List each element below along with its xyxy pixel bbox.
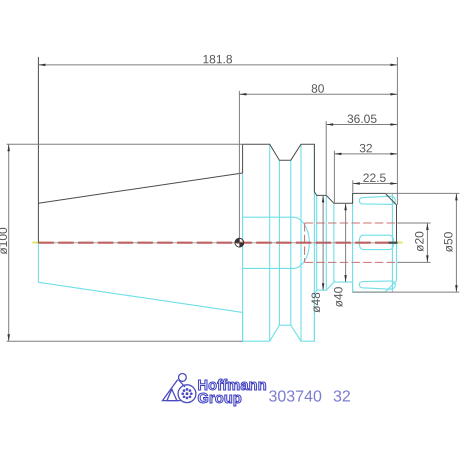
svg-text:ø48: ø48 — [309, 292, 323, 313]
centerline base (gray) — [33, 242, 403, 244]
svg-text:22.5: 22.5 — [363, 171, 387, 185]
dimension 80 — [239, 82, 397, 243]
svg-text:ø20: ø20 — [413, 231, 427, 252]
dimension 32 — [334, 141, 397, 203]
dimension ø100 — [0, 144, 243, 341]
flange left face top — [242, 144, 244, 173]
edge chamfer to ø48 land — [316, 195, 318, 290]
left face / extension — [37, 57, 39, 243]
svg-text:303740: 303740 — [268, 389, 322, 406]
svg-text:181.8: 181.8 — [202, 52, 232, 66]
edge V-groove bottom right — [290, 160, 292, 325]
edge V-groove bottom left — [278, 160, 280, 325]
left face lower — [37, 243, 39, 283]
upper silhouette (dark outline) — [38, 57, 396, 243]
Hoffmann Group logo icon — [163, 374, 196, 403]
svg-text:ø50: ø50 — [442, 231, 456, 252]
datum point — [235, 238, 244, 247]
dimension ø48 — [309, 195, 324, 312]
centerline red dashes — [38, 242, 397, 244]
right face lower — [396, 243, 398, 281]
dimension ø40 — [332, 203, 347, 307]
collet nut slot bottom — [359, 281, 395, 289]
svg-text:ø100: ø100 — [0, 227, 10, 255]
logo gear — [181, 388, 192, 399]
taper bottom — [38, 282, 242, 312]
svg-text:32: 32 — [359, 141, 373, 155]
svg-text:ø40: ø40 — [332, 286, 346, 307]
dimension ø50 — [353, 193, 460, 292]
svg-text:36.05: 36.05 — [347, 112, 377, 126]
taper top — [38, 173, 242, 203]
centerline dark segment near right face — [389, 242, 398, 244]
edge nut chamfer start — [391, 193, 393, 292]
dimension 36.05 — [326, 112, 397, 196]
edge V-groove right shoulder — [300, 144, 302, 341]
edge V-groove left shoulder — [269, 144, 271, 341]
edge nut left face — [352, 193, 354, 292]
dimension 22.5 — [353, 171, 398, 193]
svg-text:80: 80 — [311, 82, 325, 96]
centerline yellow tip right — [398, 242, 403, 244]
collet nut slot top — [359, 196, 395, 204]
lower silhouette (cyan mirror outline) — [38, 243, 396, 342]
cyan feature edges — [243, 144, 393, 341]
flange top with V-groove — [243, 144, 386, 203]
collet nut slot middle — [359, 235, 394, 249]
dimension 181.8 — [38, 52, 397, 66]
flange bottom left — [243, 282, 386, 341]
dimension ø20 — [397, 223, 430, 262]
svg-text:32: 32 — [333, 389, 351, 406]
right common extension line — [396, 57, 398, 205]
internal pocket (cyan) — [243, 217, 310, 268]
hidden bore ø20 (red dashed) — [305, 223, 397, 262]
edge ø48 land end — [325, 195, 327, 290]
centerline yellow tip left — [32, 242, 38, 244]
right face upper — [396, 205, 398, 243]
edge flange left face — [242, 173, 244, 341]
nut chamfer top — [385, 193, 396, 205]
edge flange right face — [313, 144, 315, 341]
svg-text:Group: Group — [198, 391, 243, 407]
edge ø40 groove start — [333, 203, 335, 282]
nut chamfer bottom — [385, 281, 396, 292]
